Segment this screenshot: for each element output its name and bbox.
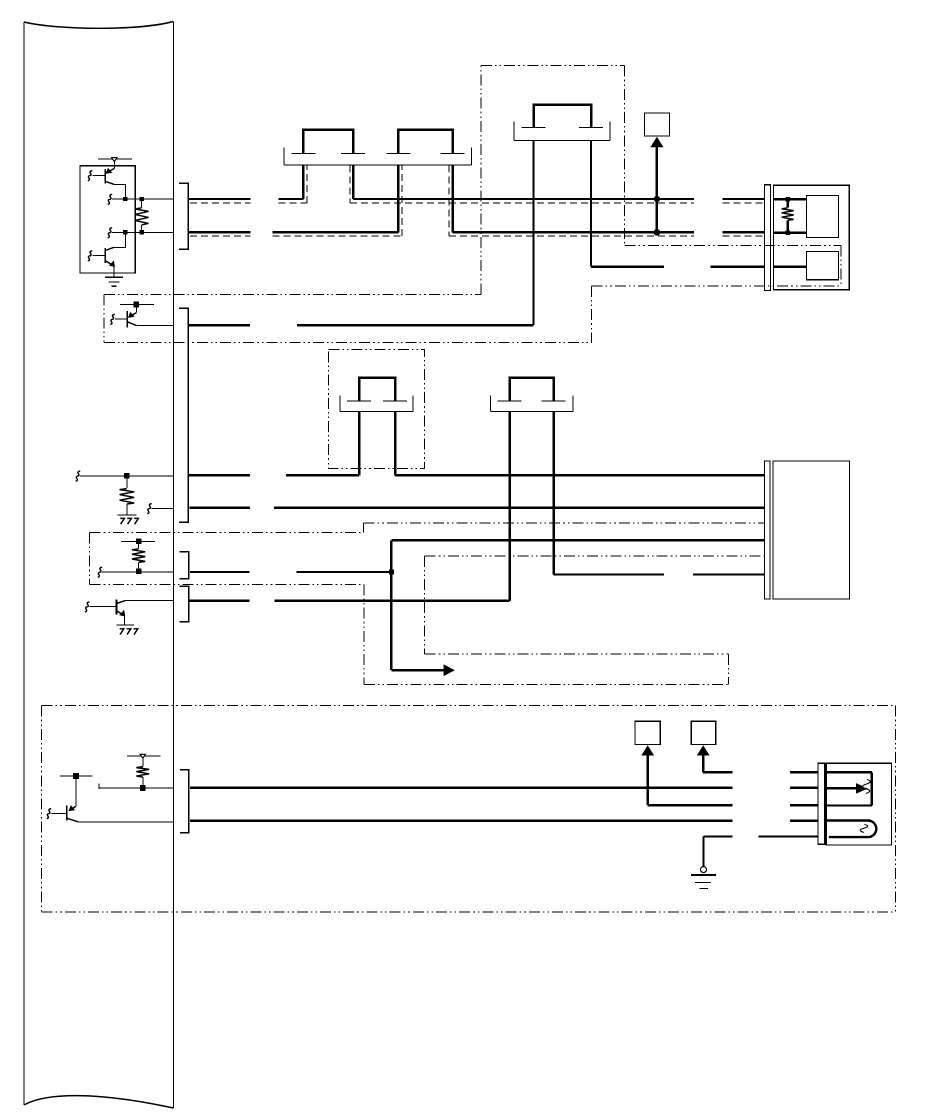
- O2 heater coil (internal loop): [825, 821, 877, 838]
- connector bracket (ECM pin y=572): [180, 552, 189, 579]
- wire W7 (y=572 to junction): [190, 571, 391, 573]
- hook wire-572: [98, 567, 103, 577]
- transistor Q1 (PNP, top of driver box): [93, 168, 126, 199]
- pin line y=571.9 inside ECM: [102, 571, 173, 573]
- node dot (125.4,232): [123, 230, 127, 234]
- ECM/PCM body outline (left tall box with wavy top and bottom): [24, 22, 173, 1109]
- resistor R4 (pull-up, bottom section): [136, 767, 149, 788]
- harness line (dash-dot y=286): [592, 285, 842, 287]
- harness boundary (dash-dot around VREF section): [90, 523, 765, 684]
- arrow (to other circuit, right-pointing): [444, 664, 455, 676]
- connector bracket (ECM pins, top pair): [179, 183, 188, 249]
- connector bracket (ECM pins, middle tall): [179, 308, 188, 522]
- power rail symbol (line with inverted triangle): [98, 158, 132, 169]
- sensor S2 (middle right component box): [765, 461, 850, 599]
- pin line y=325.4 inside ECM: [136, 324, 173, 326]
- harness line (vertical x=841.2 inside right box): [840, 245, 842, 286]
- power rail symbol (line + triangle, bottom section): [127, 754, 161, 766]
- in-line connector A (4-pin, staples + receptacle): [284, 130, 471, 233]
- S1 internal wire pin2: [774, 231, 807, 233]
- wire W8 (y=540 signal with branch): [391, 540, 764, 670]
- wire W12 (y=820.6 to O2 sensor heater): [190, 819, 818, 821]
- hook wire-508: [147, 504, 152, 514]
- ground (hatched, under R3): [117, 515, 138, 524]
- junction dot (126.8,475.8): [124, 473, 130, 479]
- in-line connector C (staple + receptacle): [340, 378, 413, 476]
- hook wire-475: [76, 471, 81, 481]
- wire W10 (y=601 to connector D left leg): [189, 600, 510, 602]
- shield of W2 (dashed): [190, 166, 765, 237]
- resistor R2 (inside S1): [782, 199, 794, 233]
- hook wire-232: [108, 228, 113, 238]
- O2 sensing element (internal wiring): [825, 772, 872, 805]
- hook Q5 base lead: [47, 809, 52, 819]
- connector bracket (ECM pin y=601): [180, 586, 189, 622]
- wire W13 (heater ground side, y=836.5): [704, 835, 819, 837]
- transistor Q5 (PNP driver, bottom section): [51, 773, 92, 822]
- wire W11 (y=788 to O2 sensor): [190, 787, 818, 789]
- connector bracket (ECM pins, bottom pair): [180, 770, 189, 833]
- junction dot (656.9,232.4): [654, 229, 661, 236]
- harness boundary (dash-dot square around connector C): [328, 349, 424, 468]
- arrow to T2 with drop wire: [641, 745, 732, 805]
- hook Q3 base lead: [110, 314, 115, 324]
- sensor S1 (top right component box): [765, 185, 850, 291]
- pull-up network (line + resistor R5 inside ECM): [121, 539, 155, 572]
- S1 internal wire pin3: [774, 265, 807, 267]
- terminal box T1 (small square, splice reference): [644, 113, 669, 136]
- in-line connector D (staple + receptacle): [491, 378, 573, 601]
- O2 sensor body box: [826, 763, 891, 845]
- harness line (vertical x=591.6): [591, 286, 593, 343]
- junction dot (656.9,199): [654, 196, 660, 202]
- junction dot (138.6,571.4): [136, 569, 142, 575]
- node wire (pin line y=199 inside ECM): [112, 198, 173, 200]
- hook wire-199: [108, 194, 113, 204]
- S1 internal wire pin1: [774, 198, 807, 200]
- resistor R1 (between pin lines): [135, 199, 149, 232]
- wire W4 (connector B right leg to sensor pin y=266.6): [591, 141, 765, 267]
- harness boundary around ECM outputs (dash-dot box2): [104, 294, 592, 342]
- ground (3-bar, under driver box): [105, 277, 123, 286]
- node dot (141.7,199): [140, 197, 144, 201]
- hook Q1 base lead: [88, 171, 93, 181]
- pin line y=788 inside ECM with end tick: [99, 784, 173, 790]
- node dot (125.4,199): [123, 197, 127, 201]
- in-line connector B (2-pin, staple + receptacle): [514, 105, 610, 141]
- node dot (141.7,232): [140, 230, 144, 234]
- terminal box T2 (small square, fuse feed): [635, 721, 660, 744]
- big harness boundary (dash-dot box, bottom section): [42, 706, 896, 912]
- terminal box T3 (small square, fuse feed): [691, 721, 716, 744]
- wire W3 (y=325 pin to connector B left leg): [189, 141, 533, 326]
- resistor R3 (pull-down inside ECM): [120, 476, 135, 515]
- wire W5 (y=475 sensor supply): [188, 474, 764, 476]
- node wire (pin line y=232 inside ECM): [112, 231, 173, 233]
- wire W2 (shielded, y=232): ECM to sensor box: [189, 165, 764, 232]
- ground (hatched, under Q4): [117, 625, 138, 634]
- pin line y=475.8 inside ECM: [80, 475, 173, 477]
- arrow to T3 with drop wire: [697, 745, 733, 772]
- transistor Q3 (PNP driver in dash-dot box): [115, 302, 154, 328]
- hook Q4 base lead: [85, 602, 90, 612]
- pin line y=508.3 inside ECM: [152, 507, 174, 509]
- junction dot (391.3,572): [389, 570, 394, 575]
- shield of W1 (dashed): [190, 166, 765, 204]
- transistor Q4 (NPN driver, pin y=601): [89, 599, 125, 625]
- pin line y=821.8 inside ECM: [78, 821, 173, 823]
- junction dot (787.6,232.7): [785, 230, 790, 235]
- pin line y=600.6 inside ECM: [125, 600, 173, 602]
- driver box U1 (dual transistor output stage inside ECM): [80, 166, 135, 273]
- ground G4 (earth with connector circle): [691, 837, 716, 889]
- wire stub (y=772.3 to O2 signal): [790, 771, 818, 773]
- wire stub (y=805.2 to O2 heater): [790, 804, 818, 806]
- harness line (dash-dot y=245.4 to right box): [625, 244, 842, 246]
- wire W1 (shielded, y=199): ECM to sensor box: [189, 165, 764, 199]
- O2 sensor connector bar: [818, 763, 825, 844]
- wire W9 (connector D right leg to sensor, y=572.8): [554, 573, 765, 575]
- junction dot (787.6,199.1): [785, 197, 790, 202]
- junction dot (142.8,788): [140, 785, 146, 791]
- hook Q2 base lead: [88, 251, 93, 261]
- wire W6 (y=508): [190, 507, 765, 509]
- harness boundary box (dash-dot, around connector B): [481, 66, 625, 295]
- arrow to T1 (up arrow from wires): [650, 137, 663, 233]
- transistor Q2 (NPN, bottom of driver box): [93, 232, 126, 277]
